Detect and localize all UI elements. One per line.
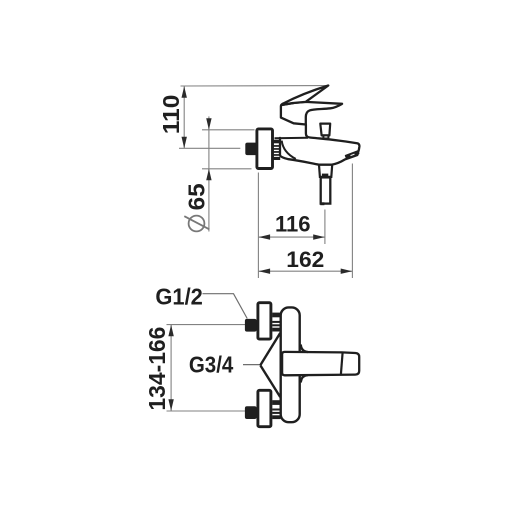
flange bottom extension line: [202, 168, 252, 170]
svg-text:116: 116: [275, 211, 311, 236]
side view: outlet bottom tick: [320, 202, 324, 205]
leader line G3/4: [243, 364, 260, 366]
bottom view: handle wedge lower line: [260, 365, 280, 397]
side view: outlet lower tube: [321, 177, 331, 203]
bottom view: handle wedge upper line: [260, 333, 280, 365]
side view: aerator highlight: [351, 154, 355, 156]
side view: shower outlet upper cone: [319, 160, 333, 177]
bottom view: body capsule: [281, 307, 300, 422]
svg-text:G3/4: G3/4: [189, 352, 234, 378]
bottom view: top thread ridges: [272, 313, 280, 332]
dimension line 162: [258, 269, 352, 274]
bottom view: spout-body fillet bottom: [301, 375, 308, 382]
axis extension line: [179, 147, 240, 149]
bottom view: spout tip cap line: [341, 353, 343, 375]
extension line bottom inlet axis: [167, 410, 247, 412]
svg-text:162: 162: [286, 247, 324, 272]
flange top extension line: [202, 129, 255, 131]
bottom view: bottom flange: [258, 390, 271, 426]
dimension line 116: [258, 234, 325, 239]
extension line below outlet: [324, 210, 326, 245]
extension line from handle tip (top): [181, 85, 327, 87]
side view: thread ridges: [273, 140, 280, 160]
extension line below spout tip: [351, 164, 353, 279]
side view: body and spout outline: [280, 125, 359, 165]
svg-text:110: 110: [158, 95, 184, 134]
diameter symbol: [184, 216, 209, 232]
bottom view: top flange: [258, 303, 271, 339]
bottom view: bottom hex nut: [245, 406, 257, 419]
side view: handle base and grip: [281, 102, 342, 125]
leader line G1/2: [203, 294, 248, 319]
side view: outlet dark band: [322, 174, 328, 178]
svg-text:G1/2: G1/2: [155, 283, 203, 309]
bottom view: spout plan: [282, 352, 359, 375]
dimension line dia 65: [206, 116, 211, 231]
dimension line 134-166: [168, 325, 173, 411]
bottom view: bottom thread ridges: [272, 400, 280, 419]
svg-text:65: 65: [184, 183, 210, 210]
side view: aerator slot: [346, 151, 359, 158]
extension line top inlet axis: [167, 324, 247, 326]
side view: knob stem: [323, 135, 328, 138]
side view: diverter knob: [320, 124, 330, 136]
side view: hex nut: [245, 143, 257, 156]
dimension line 110: [182, 86, 187, 148]
side view: handle lever blade: [282, 86, 328, 105]
bottom view: top hex nut: [245, 319, 257, 332]
side view: wall flange: [257, 129, 273, 169]
side view: body elbow inner arc: [282, 141, 296, 159]
side view: spout top internal line to wall: [275, 137, 309, 140]
extension line below flange (left): [257, 173, 259, 279]
bottom view: spout-body fillet top: [301, 345, 308, 353]
svg-text:134-166: 134-166: [144, 327, 170, 411]
